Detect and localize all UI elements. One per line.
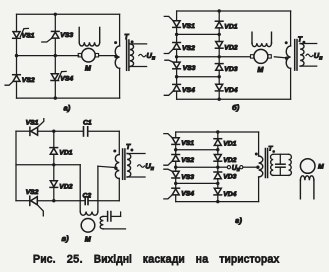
svg-text:VS3: VS3 bbox=[183, 65, 196, 72]
node: primary centre tap junction bbox=[256, 166, 259, 169]
thyristor VS2 of circuit b bbox=[173, 42, 181, 44]
svg-text:Uп: Uп bbox=[146, 51, 155, 61]
node: VD column top junction bbox=[216, 130, 219, 133]
wire: branch to transformer tap bbox=[98, 166, 116, 167]
wire: right rail lower bbox=[118, 179, 120, 201]
svg-text:T: T bbox=[298, 37, 303, 44]
thyristor VS1 of circuit g bbox=[172, 138, 179, 144]
wire: left column middle segment bbox=[16, 38, 18, 74]
wire: stub up at lead end bbox=[120, 212, 122, 216]
thyristor VS3 of circuit g bbox=[172, 171, 179, 177]
wire: top wire middle segment bbox=[38, 130, 84, 132]
node: VD3-VD4 junction bbox=[216, 182, 219, 185]
wire: secondary top lead bbox=[130, 43, 147, 45]
wire: VD column segment 3 bbox=[53, 187, 55, 200]
wire: second column middle segment bbox=[54, 38, 56, 74]
svg-text:VD1: VD1 bbox=[223, 140, 236, 147]
label ~Un output bbox=[306, 54, 313, 57]
wire: rung 2 between columns bbox=[176, 166, 218, 168]
node: VD column bottom junction bbox=[216, 200, 219, 203]
wire: motor to transformer primary tap bbox=[99, 55, 116, 57]
svg-text:T: T bbox=[126, 144, 131, 151]
svg-text:VD2: VD2 bbox=[223, 157, 236, 164]
svg-text:VS1: VS1 bbox=[181, 140, 194, 147]
motor M armature of circuit b bbox=[254, 49, 268, 63]
thyristor VS3 of circuit b bbox=[173, 62, 180, 68]
svg-text:C2: C2 bbox=[83, 192, 92, 199]
svg-text:VD2: VD2 bbox=[59, 183, 72, 190]
wire: secondary top lead bbox=[300, 43, 317, 45]
svg-text:VS4: VS4 bbox=[182, 87, 195, 94]
thyristor VS4 of circuit b bbox=[173, 83, 181, 85]
svg-text:а): а) bbox=[64, 104, 71, 113]
svg-text:Рис. 25. Вихідні каскади на ти: Рис. 25. Вихідні каскади на тиристорах bbox=[33, 253, 280, 265]
wire: rung 3 between columns bbox=[176, 182, 218, 184]
node: VS1-VS2 junction bbox=[175, 33, 178, 36]
transformer T primary winding of circuit g bbox=[259, 156, 263, 177]
thyristor VS3 bbox=[52, 30, 60, 32]
svg-text:VS1: VS1 bbox=[182, 23, 195, 30]
thyristor VS1 of circuit b bbox=[173, 21, 180, 27]
circuit b: top bus wire bbox=[177, 10, 291, 12]
wire: rung 2 to motor bbox=[177, 56, 251, 58]
wire: right branch vertical of C2 block bbox=[97, 166, 99, 211]
wire: VD column segment 5 bbox=[217, 195, 219, 202]
motor M armature bbox=[82, 48, 96, 62]
wire: rung 1 between columns bbox=[177, 33, 220, 35]
svg-text:VD3: VD3 bbox=[224, 66, 237, 73]
svg-text:VD1: VD1 bbox=[59, 149, 72, 156]
wire: right rail upper bbox=[118, 131, 120, 154]
circuit a: bottom bus wire bbox=[17, 97, 120, 99]
thyristor VS4 of circuit g bbox=[172, 187, 180, 189]
node: VD column bottom junction bbox=[52, 199, 55, 202]
terminal circle right of Un bbox=[240, 166, 243, 169]
wire: VD column segment 3 bbox=[217, 161, 219, 172]
excitation winding beside motor bbox=[100, 216, 103, 229]
thyristor VS4 bbox=[51, 74, 58, 80]
polarity dot of primary bbox=[114, 41, 117, 44]
node: VS3-VS4 junction bbox=[174, 182, 177, 185]
node: VD column top junction bbox=[218, 9, 221, 12]
wire: secondary bottom lead bbox=[300, 65, 317, 67]
circuit g: bottom bus wire bbox=[176, 201, 259, 203]
svg-text:г): г) bbox=[235, 216, 242, 225]
node: primary centre tap junction bbox=[114, 55, 117, 58]
transformer T core of circuit g bbox=[264, 149, 266, 178]
diode VD2 of circuit g bbox=[214, 155, 221, 161]
svg-text:VD3: VD3 bbox=[223, 174, 236, 181]
wire: VD column segment 2 bbox=[218, 28, 220, 42]
wire: capacitor bottom lead bbox=[279, 167, 281, 175]
wire: VS column segment 2 bbox=[175, 144, 177, 154]
motor M armature of circuit v bbox=[81, 219, 95, 233]
wire: right rail upper bbox=[258, 132, 260, 156]
svg-text:VS1: VS1 bbox=[22, 32, 35, 39]
wire: left column upper segment bbox=[16, 14, 18, 31]
svg-text:VS2: VS2 bbox=[22, 77, 35, 84]
svg-text:VD2: VD2 bbox=[224, 44, 237, 51]
transformer T core bbox=[126, 40, 128, 70]
diode VD1 of circuit g bbox=[214, 138, 222, 140]
wire: VS column segment 1 bbox=[176, 11, 178, 21]
wire: top wire right segment bbox=[88, 130, 120, 132]
wire: secondary bottom lead bbox=[127, 176, 145, 178]
capacitor across secondary bbox=[276, 163, 285, 165]
polarity dot of primary bbox=[285, 41, 288, 44]
circuit v: top wire left segment bbox=[16, 130, 30, 132]
thyristor VS1 of circuit v (horizontal) bbox=[29, 127, 31, 135]
wire: left branch vertical of C2 block bbox=[79, 165, 81, 212]
winding in parallel (right of capacitor) bbox=[289, 154, 292, 175]
wire: VD column segment 3 bbox=[218, 48, 220, 63]
field winding under motor of circuit g bbox=[300, 176, 314, 180]
wire: Un wire to left terminal bbox=[218, 166, 228, 168]
transformer T secondary winding bbox=[130, 44, 134, 67]
diode VD2 of circuit b bbox=[216, 42, 223, 48]
diode VD4 of circuit b bbox=[216, 84, 223, 90]
field winding of motor M bbox=[78, 27, 80, 42]
svg-text:VD4: VD4 bbox=[224, 87, 237, 94]
svg-text:Uп: Uп bbox=[314, 51, 323, 61]
svg-text:T: T bbox=[124, 34, 129, 41]
svg-text:M: M bbox=[318, 164, 324, 171]
wire: left column lower segment bbox=[16, 81, 18, 98]
circuit g: top bus wire bbox=[176, 131, 259, 133]
node: VS3-VS4 junction bbox=[175, 75, 178, 78]
wire: VS column segment 5 bbox=[176, 91, 178, 99]
wire: cluster bottom rail bbox=[273, 174, 288, 176]
capacitor in motor branch bbox=[107, 212, 109, 222]
diode VD4 of circuit g bbox=[214, 188, 221, 194]
wire: VD column segment 4 bbox=[218, 70, 220, 84]
wire: VD column segment 1 bbox=[217, 132, 219, 139]
diode VD2 of circuit v bbox=[50, 181, 57, 187]
thyristor VS2 of circuit g bbox=[172, 154, 180, 156]
transformer secondary winding of circuit g bbox=[271, 154, 274, 175]
wire: VS column segment 4 bbox=[176, 69, 178, 85]
svg-text:VD4: VD4 bbox=[223, 191, 236, 198]
wire: Un wire to transformer tap bbox=[243, 166, 257, 168]
wire: VD column segment 1 bbox=[53, 131, 55, 147]
svg-text:в): в) bbox=[62, 234, 70, 243]
svg-text:VD1: VD1 bbox=[224, 23, 237, 30]
wire: rung 1 between columns bbox=[176, 149, 218, 151]
wire: VD column segment 2 bbox=[217, 145, 219, 154]
node: primary centre tap junction bbox=[285, 57, 288, 60]
svg-text:Uп: Uп bbox=[232, 165, 240, 173]
wire: C2 left stub bbox=[80, 200, 85, 202]
polarity dot of primary bbox=[113, 150, 116, 153]
svg-text:VS2: VS2 bbox=[26, 189, 39, 196]
node: VD column mid junction bbox=[52, 163, 55, 166]
node: mid junction of second column bbox=[54, 54, 57, 57]
svg-text:б): б) bbox=[232, 103, 240, 112]
capacitor C2 bbox=[84, 197, 86, 205]
transformer T primary winding of circuit v bbox=[115, 155, 119, 179]
wire: right rail upper bbox=[119, 14, 121, 46]
svg-text:VS4: VS4 bbox=[181, 191, 194, 198]
transformer T secondary winding of circuit b bbox=[300, 44, 304, 67]
node: VD2-VD3 junction bbox=[218, 55, 221, 58]
polarity dot of secondary bbox=[302, 41, 305, 44]
diode VD3 of circuit g bbox=[214, 171, 222, 173]
transformer T core bbox=[122, 149, 124, 179]
node: VS1-VS2 junction bbox=[174, 148, 177, 151]
wire: lead after capacitor bbox=[111, 215, 120, 217]
wire: VS column segment 2 bbox=[176, 27, 178, 42]
node: VS2-VS3 junction bbox=[175, 55, 178, 58]
wire: VD column segment 2 bbox=[53, 154, 55, 180]
transformer T core bbox=[294, 40, 296, 71]
wire: VD column segment 1 bbox=[218, 11, 220, 21]
diode VD3 of circuit b bbox=[215, 63, 223, 65]
polarity dot of secondary bbox=[131, 40, 134, 43]
polarity dot of primary bbox=[255, 153, 258, 156]
label ~Un output bbox=[139, 54, 146, 57]
transformer T secondary winding of circuit v bbox=[127, 154, 131, 178]
svg-text:M: M bbox=[85, 64, 92, 73]
transformer T primary winding of circuit b bbox=[286, 46, 290, 68]
transformer T primary winding bbox=[115, 46, 119, 68]
wire: secondary top lead bbox=[127, 153, 145, 155]
wire: lower wire middle segment bbox=[37, 200, 80, 202]
wire: VS column segment 4 bbox=[175, 178, 177, 188]
wire: centre tap wire bbox=[16, 164, 80, 166]
svg-text:VS2: VS2 bbox=[182, 45, 195, 52]
node: top junction of second column bbox=[54, 13, 57, 16]
node: VD column bottom junction bbox=[218, 98, 221, 101]
wire: right rail lower bbox=[258, 177, 260, 202]
svg-text:VS4: VS4 bbox=[60, 75, 73, 82]
svg-text:M: M bbox=[85, 234, 92, 243]
wire: right rail upper bbox=[290, 11, 292, 46]
wire: VS column segment 5 bbox=[175, 195, 177, 202]
circuit a: top bus wire bbox=[17, 13, 120, 15]
wire: VD column segment 4 bbox=[217, 179, 219, 189]
wire: second column lower segment bbox=[54, 81, 56, 99]
thyristor VS2 of circuit v (horizontal) bbox=[29, 196, 31, 205]
node: VD1-VD2 junction bbox=[218, 33, 221, 36]
wire: middle wire to motor bbox=[17, 55, 79, 57]
node: VD3-VD4 junction bbox=[218, 75, 221, 78]
label ~Un output bbox=[138, 165, 145, 168]
wire: VS column segment 3 bbox=[176, 49, 178, 62]
circuit b: bottom bus wire bbox=[177, 98, 291, 100]
wire: right rail lower bbox=[119, 68, 121, 98]
svg-text:Uп: Uп bbox=[145, 162, 154, 172]
motor M armature of circuit g bbox=[300, 159, 315, 174]
wire: lower wire right segment to rail bbox=[98, 200, 119, 202]
svg-text:M: M bbox=[257, 65, 264, 74]
svg-text:VS3: VS3 bbox=[181, 174, 194, 181]
wire: VS column segment 1 bbox=[175, 132, 177, 138]
wire: secondary bottom lead bbox=[130, 66, 147, 68]
wire: VS column segment 3 bbox=[175, 161, 177, 171]
svg-text:VS1: VS1 bbox=[26, 120, 39, 127]
wire: left rail bbox=[15, 131, 17, 201]
thyristor VS1 bbox=[13, 32, 20, 38]
node: left mid junction bbox=[15, 54, 18, 57]
polarity dot of secondary bbox=[272, 150, 275, 153]
node: VS2-VS3 junction bbox=[174, 166, 177, 169]
node: VD2-VD3 junction bbox=[216, 166, 219, 169]
wire: capacitor top lead bbox=[279, 154, 281, 164]
wire: C2 right stub bbox=[88, 200, 98, 202]
wire: rung 3 between columns bbox=[177, 76, 220, 78]
svg-text:VS3: VS3 bbox=[60, 32, 73, 39]
node: bottom junction of second column bbox=[54, 96, 57, 99]
svg-text:C1: C1 bbox=[83, 120, 92, 127]
wire: motor to transformer primary tap bbox=[274, 57, 287, 58]
diode VD1 of circuit v bbox=[50, 147, 58, 149]
wire: lower wire left segment bbox=[16, 200, 30, 202]
wire: right rail lower bbox=[290, 68, 292, 99]
svg-text:VS2: VS2 bbox=[181, 157, 194, 164]
node: VD1-VD2 junction bbox=[216, 148, 219, 151]
wire: second column upper segment bbox=[54, 14, 56, 31]
node: primary centre tap junction bbox=[114, 167, 117, 170]
thyristor VS2 bbox=[13, 74, 21, 76]
polarity dot of secondary bbox=[130, 149, 133, 152]
wire: winding top lead bbox=[103, 215, 107, 217]
field winding under C2 block bbox=[80, 212, 98, 216]
node: VD column top junction bbox=[52, 130, 55, 133]
terminal circle left of Un bbox=[227, 166, 230, 169]
wire: winding bottom lead bbox=[103, 228, 125, 230]
wire: VD column segment 5 bbox=[218, 91, 220, 99]
wire: cluster top rail bbox=[273, 153, 288, 155]
capacitor C1 bbox=[83, 127, 85, 136]
diode VD1 of circuit b bbox=[215, 20, 223, 22]
field winding of motor in circuit b bbox=[251, 32, 253, 43]
